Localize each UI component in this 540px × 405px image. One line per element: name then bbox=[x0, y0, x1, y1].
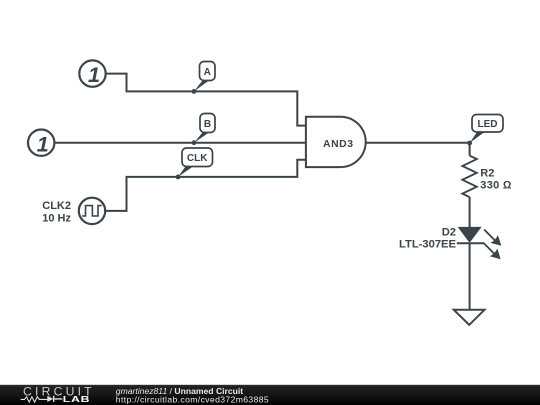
logic source V2 bbox=[28, 130, 54, 157]
svg-text:D2: D2 bbox=[442, 226, 456, 238]
wire R2 to D2 bbox=[469, 197, 471, 227]
svg-text:http://circuitlab.com/cved372m: http://circuitlab.com/cved372m63885 bbox=[116, 394, 269, 404]
node B flag bbox=[194, 114, 215, 143]
label D2 LTL-307EE bbox=[399, 226, 457, 250]
CircuitLab logo bbox=[21, 385, 95, 405]
svg-text:LED: LED bbox=[478, 119, 498, 130]
svg-text:10 Hz: 10 Hz bbox=[42, 213, 71, 225]
wire D2 to ground bbox=[469, 243, 471, 309]
svg-text:LTL-307EE: LTL-307EE bbox=[399, 238, 457, 250]
node B junction bbox=[192, 140, 197, 145]
svg-text:A: A bbox=[204, 67, 211, 78]
label CLK2 10 Hz bbox=[42, 200, 71, 225]
wire V2 to AND3 input 2 bbox=[55, 142, 306, 144]
label R2 330 ohm bbox=[480, 167, 512, 191]
wire AND3 output to LED node bbox=[366, 142, 470, 144]
svg-text:LAB: LAB bbox=[63, 396, 91, 405]
node A junction bbox=[192, 89, 197, 94]
svg-text:CLK: CLK bbox=[187, 153, 208, 164]
svg-text:330 Ω: 330 Ω bbox=[480, 179, 512, 191]
svg-text:AND3: AND3 bbox=[323, 139, 354, 150]
logic source V1 bbox=[79, 60, 105, 87]
wire LED node to R2 bbox=[469, 143, 471, 156]
resistor R2 bbox=[462, 156, 476, 198]
ground bbox=[454, 310, 485, 325]
footer bar bbox=[0, 385, 540, 405]
clock source CLK2 bbox=[79, 198, 105, 224]
node CLK flag bbox=[178, 148, 213, 177]
node A flag bbox=[194, 62, 215, 92]
node CLK junction bbox=[176, 175, 181, 180]
wire V1 to AND3 input 1 bbox=[107, 74, 306, 126]
footer credit text bbox=[116, 386, 269, 405]
LED D2 bbox=[457, 227, 502, 259]
svg-text:B: B bbox=[204, 119, 211, 130]
svg-text:R2: R2 bbox=[480, 167, 494, 179]
svg-text:1: 1 bbox=[37, 132, 49, 156]
node LED junction bbox=[467, 141, 472, 146]
and gate U1 AND3 bbox=[306, 117, 366, 167]
svg-text:1: 1 bbox=[88, 63, 100, 87]
wire CLK2 to AND3 input 3 bbox=[105, 160, 306, 211]
node LED flag bbox=[470, 115, 503, 144]
svg-text:CLK2: CLK2 bbox=[42, 200, 71, 212]
